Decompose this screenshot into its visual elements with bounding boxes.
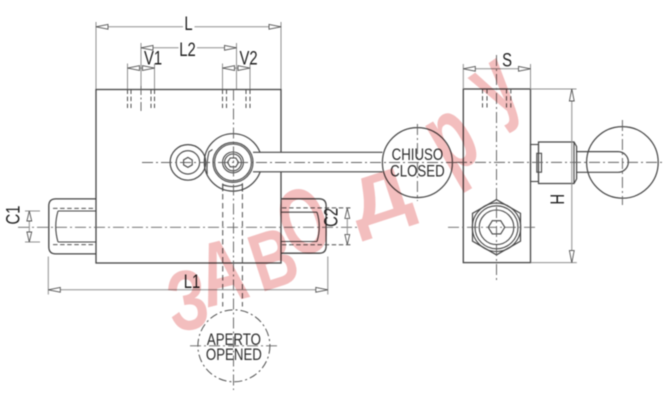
arrow S right xyxy=(519,66,531,71)
hex plug outline xyxy=(473,200,521,255)
right hex facet lines xyxy=(281,212,317,241)
CHIUSO text xyxy=(392,146,444,165)
lever fork edge arc xyxy=(207,150,213,175)
svg-text:V1: V1 xyxy=(144,46,162,69)
V1 port hidden thread lines xyxy=(128,90,155,109)
svg-text:L: L xyxy=(184,12,193,35)
arrow L1 right xyxy=(316,287,328,292)
front horizontal centerline (pivot axis) xyxy=(142,162,458,164)
lever bar (closed position) white fill xyxy=(253,152,383,172)
arrow C1 bottom xyxy=(27,232,32,242)
arrow V1 right xyxy=(143,66,155,71)
dim S ext lines xyxy=(463,64,530,89)
lever boss hex socket xyxy=(227,158,238,167)
right hex fitting C2 side profile xyxy=(281,199,326,253)
lever boss outer circle xyxy=(204,134,261,191)
arrow V2 right xyxy=(238,66,250,71)
arrow L right xyxy=(269,24,281,29)
dim S line xyxy=(463,68,530,70)
arrow C2 bottom xyxy=(345,235,350,245)
svg-text:OPENED: OPENED xyxy=(206,346,262,365)
APERTO ball horizontal centerline xyxy=(190,345,278,347)
dim L2 ext lines xyxy=(141,43,237,89)
svg-text:L2: L2 xyxy=(179,38,195,61)
dim C2 line xyxy=(346,208,348,244)
dim V1 line xyxy=(128,67,155,69)
front view body block xyxy=(96,90,281,264)
dim H line xyxy=(571,89,573,263)
lever boss inner circles xyxy=(213,142,253,182)
arrow V2 left xyxy=(223,66,235,71)
dim V2 ext lines xyxy=(223,64,251,90)
CHIUSO ball vertical centerline xyxy=(416,124,418,201)
dim L2 line xyxy=(141,47,237,49)
side plug vertical centerline xyxy=(496,55,498,280)
arrow S left xyxy=(463,66,475,71)
hub pin xyxy=(537,153,542,172)
V1 port centerline xyxy=(140,86,142,113)
side body block xyxy=(463,89,530,263)
side port hidden thread lines xyxy=(483,89,511,108)
ball knob vertical centerline xyxy=(621,120,623,205)
dim V1 ext lines xyxy=(128,64,155,90)
svg-text:S: S xyxy=(502,48,512,71)
detent tab xyxy=(223,183,243,191)
side lower centerline xyxy=(448,226,538,228)
phantom lever bar (open position) xyxy=(223,194,243,307)
stem xyxy=(577,152,629,173)
APERTO text xyxy=(207,331,261,350)
hub flange xyxy=(531,145,539,182)
left hex fitting C1 side profile xyxy=(49,199,96,254)
left hex facet lines xyxy=(58,211,96,242)
arrow L left xyxy=(96,24,108,29)
dim L ext lines xyxy=(96,22,281,89)
APERTO phantom ball xyxy=(198,310,270,382)
pivot screw hex socket xyxy=(184,157,193,167)
right hex chamfer arc xyxy=(317,212,319,241)
front main vertical centerline xyxy=(233,90,235,391)
dim L1 line xyxy=(48,289,328,291)
V2 port hidden thread lines xyxy=(223,90,251,109)
right port thread hidden lines + C2 extension xyxy=(282,208,351,245)
hex plug socket xyxy=(488,221,505,234)
left port thread hidden lines xyxy=(53,208,95,244)
arrowheads xyxy=(27,24,574,292)
arrow L1 left xyxy=(48,287,60,292)
arrow C1 top xyxy=(27,211,32,221)
left hex chamfer arc xyxy=(56,211,58,242)
dim L line xyxy=(96,26,281,28)
svg-text:C1: C1 xyxy=(1,206,24,225)
arrow C2 top xyxy=(345,208,350,218)
hub right face line xyxy=(573,142,575,184)
svg-text:H: H xyxy=(546,194,569,205)
dim H ext lines xyxy=(531,89,577,263)
dim C1 line xyxy=(28,211,30,242)
front lower port axis centerline xyxy=(18,226,358,228)
CHIUSO ball xyxy=(382,128,452,198)
dim V2 line xyxy=(223,67,251,69)
lever pivot screw small circle xyxy=(170,145,206,181)
arrow H top xyxy=(569,89,574,101)
lever bar edges xyxy=(253,152,383,172)
arrow H bottom xyxy=(569,251,574,263)
arrow L2 left xyxy=(141,45,153,50)
ball knob side view xyxy=(587,127,659,199)
arrow L2 right xyxy=(225,45,237,50)
watermark xyxy=(160,29,538,351)
hub body xyxy=(539,142,577,184)
svg-text:V2: V2 xyxy=(240,46,258,69)
arrow V1 left xyxy=(128,66,140,71)
hex plug circles xyxy=(472,203,520,251)
side horizontal centerline xyxy=(456,161,664,163)
dim L1 ext lines xyxy=(48,257,328,295)
dim C1 ext lines xyxy=(25,211,40,242)
